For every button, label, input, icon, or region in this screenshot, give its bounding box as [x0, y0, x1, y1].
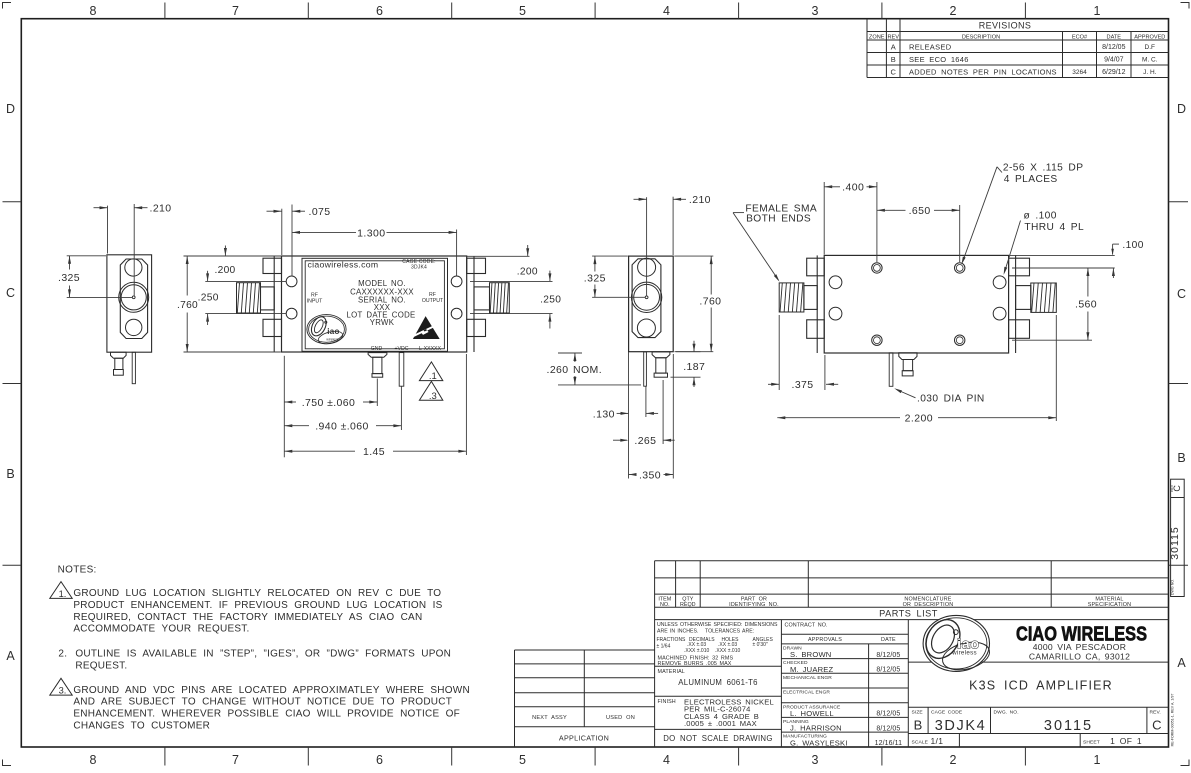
svg-text:GND: GND	[371, 346, 383, 352]
svg-text:INPUT: INPUT	[307, 299, 323, 305]
svg-text:B: B	[914, 718, 923, 733]
dimension .940 +-.060 top view	[284, 387, 401, 433]
dimension .187 right end view	[671, 341, 706, 387]
svg-text:.210: .210	[689, 194, 711, 206]
svg-text:B: B	[891, 55, 896, 64]
svg-text:S. BROWN: S. BROWN	[790, 650, 832, 659]
svg-text:C: C	[6, 286, 15, 300]
zone ticks bottom edge	[165, 747, 1026, 766]
svg-text:OUTLINE IS AVAILABLE IN ”STEP”: OUTLINE IS AVAILABLE IN ”STEP”, ”IGES”, …	[75, 649, 451, 660]
svg-text:NO.: NO.	[660, 602, 670, 608]
svg-text:1.45: 1.45	[363, 446, 385, 458]
dimension .075 top view	[267, 205, 331, 277]
dimension .210 left end view	[94, 203, 172, 296]
svg-text:1.: 1.	[59, 589, 67, 599]
svg-text:.650: .650	[909, 205, 931, 217]
parts list headers	[658, 596, 1131, 608]
dimension .100 bottom view	[1010, 240, 1144, 278]
svg-text:1 OF 1: 1 OF 1	[1110, 736, 1142, 746]
right end view SMA bore	[631, 282, 661, 312]
svg-text:M. JUAREZ: M. JUAREZ	[790, 665, 834, 674]
dimension 2.200 bottom view	[777, 315, 1056, 425]
bottom view left SMA connector body	[804, 286, 817, 310]
svg-text:wireless: wireless	[326, 338, 339, 342]
svg-text:GROUND LUG LOCATION SLIGHTLY R: GROUND LUG LOCATION SLIGHTLY RELOCATED O…	[73, 588, 441, 599]
svg-text:THRU 4 PL: THRU 4 PL	[1024, 222, 1084, 233]
svg-text:.075: .075	[309, 206, 331, 218]
top view right SMA thread	[490, 283, 510, 313]
svg-text:ENHANCEMENT. WHEREVER POSSIBLE: ENHANCEMENT. WHEREVER POSSIBLE CIAO WILL…	[73, 709, 460, 720]
svg-text:APPROVALS: APPROVALS	[808, 637, 842, 643]
svg-text:A: A	[1177, 656, 1186, 670]
dimension .325 right end view	[584, 256, 645, 297]
dimension .200 right of top view	[467, 245, 553, 281]
top view body outline	[282, 256, 467, 352]
svg-text:6: 6	[376, 4, 383, 18]
bottom view left SMA thread	[779, 283, 804, 312]
svg-text:DWG. NO.: DWG. NO.	[994, 710, 1019, 716]
svg-text:8/12/05: 8/12/05	[876, 725, 900, 732]
svg-text:.200: .200	[517, 267, 538, 278]
svg-text:CONTRACT NO.: CONTRACT NO.	[785, 623, 828, 629]
svg-text:IDENTIFYING NO.: IDENTIFYING NO.	[729, 602, 779, 608]
svg-text:REV: REV	[887, 34, 899, 40]
svg-text:5: 5	[519, 753, 526, 767]
svg-text:1.300: 1.300	[357, 227, 385, 239]
svg-text:30115: 30115	[1169, 526, 1181, 559]
revisions table grid	[867, 19, 1169, 78]
svg-text:1/1: 1/1	[931, 736, 944, 746]
svg-text:SPECIFICATION: SPECIFICATION	[1088, 602, 1132, 608]
svg-text:CHANGES TO CUSTOMER: CHANGES TO CUSTOMER	[73, 720, 210, 731]
callout 2-56 X .115 DP 4 PLACES	[962, 163, 1084, 265]
ESD warning triangle (label)	[413, 316, 440, 339]
svg-text:1: 1	[1094, 4, 1101, 18]
svg-text:A: A	[6, 649, 15, 663]
zone numbers top	[90, 4, 1101, 18]
size cage dwg rev labels	[912, 710, 1161, 716]
svg-text:ALUMINUM 6061-T6: ALUMINUM 6061-T6	[678, 678, 758, 687]
svg-text:3DJK4: 3DJK4	[411, 265, 427, 271]
zone letters left	[6, 102, 15, 663]
svg-text:.325: .325	[584, 273, 606, 285]
svg-text:FRACTIONS: FRACTIONS	[657, 637, 687, 643]
svg-text:ARE IN INCHES. TOLERANCES AR: ARE IN INCHES. TOLERANCES ARE:	[657, 628, 754, 634]
callout dia .100 THRU 4 PL	[1004, 211, 1084, 275]
dimension 1.300 top view	[292, 227, 457, 275]
svg-text:ACCOMMODATE YOUR REQUEST.: ACCOMMODATE YOUR REQUEST.	[73, 624, 249, 635]
svg-text:RE-FORM-00051-1, REV A, 1/97: RE-FORM-00051-1, REV A, 1/97	[1171, 694, 1175, 747]
svg-text:.940 ±.060: .940 ±.060	[315, 421, 369, 433]
left end view body	[107, 255, 152, 352]
top view right end-cap plate	[473, 256, 475, 352]
dimension .350 right end view	[629, 354, 674, 481]
svg-text:.0005 ± .0001 MAX: .0005 ± .0001 MAX	[684, 719, 757, 728]
svg-text:± 0'30": ± 0'30"	[753, 642, 768, 648]
application table labels	[532, 715, 635, 743]
svg-text:SIZE: SIZE	[912, 710, 924, 716]
svg-text:L. HOWELL: L. HOWELL	[790, 709, 834, 718]
svg-text:RELEASED: RELEASED	[909, 43, 952, 52]
svg-text:ADDED NOTES PER PIN LOCATIONS: ADDED NOTES PER PIN LOCATIONS	[909, 68, 1057, 77]
svg-text:.260: .260	[547, 364, 569, 376]
dimension .130 right end view	[593, 352, 658, 479]
note 2 text	[58, 649, 451, 672]
svg-text:REVISIONS: REVISIONS	[979, 21, 1032, 31]
right end view mounting hole bottom	[637, 319, 655, 337]
bottom view left mounting tabs	[807, 258, 825, 276]
svg-text:4 PLACES: 4 PLACES	[1004, 174, 1058, 185]
right end view center pin dot	[645, 296, 648, 299]
dimension .760 left of top view	[177, 256, 281, 352]
svg-text:SCALE: SCALE	[912, 740, 929, 746]
svg-text:2.: 2.	[58, 649, 67, 660]
svg-text:.750 ±.060: .750 ±.060	[302, 397, 356, 409]
svg-text:NEXT ASSY: NEXT ASSY	[532, 715, 567, 721]
left end view center pin dot	[132, 296, 135, 299]
svg-text:J. HARRISON: J. HARRISON	[790, 724, 842, 733]
ciao logo small (label)	[307, 314, 346, 346]
svg-text:DESCRIPTION: DESCRIPTION	[962, 34, 1000, 40]
svg-text:REMOVE BURRS .005 MAX: REMOVE BURRS .005 MAX	[658, 661, 732, 667]
approvals rows	[783, 646, 900, 660]
svg-text:2: 2	[950, 753, 957, 767]
dimension .260 NOM right end view	[547, 353, 642, 385]
zone ticks right edge	[1169, 202, 1189, 566]
zone ticks top edge	[165, 3, 1026, 19]
flag note 1 triangle	[50, 582, 72, 599]
svg-text:iao: iao	[327, 327, 339, 336]
dimension .200 left of top view	[205, 246, 286, 282]
left end view ground lug	[111, 352, 127, 375]
svg-text:SHEET: SHEET	[1083, 740, 1100, 746]
note 1 text	[73, 588, 442, 635]
svg-text:.265: .265	[634, 435, 656, 447]
svg-text:8/12/05: 8/12/05	[876, 667, 900, 674]
svg-text:M. C.: M. C.	[1142, 57, 1158, 64]
svg-text:.XXX ±.010: .XXX ±.010	[715, 648, 740, 654]
svg-text:DWG NO.: DWG NO.	[1170, 579, 1174, 595]
dimension .210 right end view	[634, 194, 711, 296]
svg-text:CAMARILLO CA, 93012: CAMARILLO CA, 93012	[1029, 651, 1130, 661]
svg-text:USED ON: USED ON	[606, 715, 635, 721]
svg-text:BOTH ENDS: BOTH ENDS	[746, 213, 811, 224]
svg-text:2.200: 2.200	[905, 413, 933, 425]
bottom view tapped holes 2-56	[872, 263, 882, 273]
application table grid	[515, 650, 655, 747]
svg-text:7: 7	[232, 753, 239, 767]
dimension .325 left end view	[58, 256, 133, 298]
svg-text:DO NOT SCALE DRAWING: DO NOT SCALE DRAWING	[663, 734, 772, 743]
svg-text:OR DESCRIPTION: OR DESCRIPTION	[903, 602, 954, 608]
svg-text:REQD: REQD	[680, 602, 696, 608]
svg-text:.1: .1	[429, 371, 437, 382]
dimension .250 right of top view	[470, 271, 561, 329]
svg-text:2: 2	[950, 4, 957, 18]
svg-text:FINISH: FINISH	[658, 699, 676, 705]
svg-text:A: A	[891, 43, 896, 52]
svg-text:8: 8	[90, 4, 97, 18]
svg-text:.325: .325	[58, 272, 80, 284]
svg-text:6/29/12: 6/29/12	[1102, 69, 1125, 76]
svg-text:B: B	[1177, 451, 1185, 465]
dimension .265 right end view	[613, 380, 675, 447]
svg-text:.100: .100	[1122, 240, 1143, 251]
svg-text:C: C	[890, 68, 896, 77]
svg-text:8: 8	[90, 753, 97, 767]
svg-text:.760: .760	[177, 300, 198, 311]
svg-text:AND ARE SUBJECT TO CHANGE WITH: AND ARE SUBJECT TO CHANGE WITHOUT NOTICE…	[73, 697, 452, 708]
top view screw holes	[286, 276, 297, 287]
bottom view right end-cap plate	[1015, 255, 1017, 353]
svg-text:.250: .250	[540, 294, 561, 305]
svg-text:REV: REV	[1170, 484, 1174, 492]
svg-text:ELECTRICAL ENGR: ELECTRICAL ENGR	[783, 690, 830, 696]
note 3 text	[73, 685, 470, 732]
right end view connector plate octagon	[632, 259, 661, 338]
svg-text:3264: 3264	[1072, 69, 1087, 76]
right end view body	[629, 256, 674, 352]
svg-text:.375: .375	[792, 379, 814, 391]
svg-text:ø .100: ø .100	[1024, 211, 1057, 222]
svg-text:K3S ICD AMPLIFIER: K3S ICD AMPLIFIER	[969, 679, 1113, 693]
svg-text:D: D	[6, 102, 15, 116]
svg-text:C: C	[1177, 287, 1186, 301]
svg-text:ECO#: ECO#	[1072, 34, 1088, 40]
flag note triangle 3	[419, 381, 442, 400]
zone letters right	[1177, 102, 1186, 670]
svg-text:CAGE CODE: CAGE CODE	[931, 710, 963, 716]
material box text	[658, 669, 758, 687]
left end view SMA bore	[119, 282, 149, 312]
svg-text:.030 DIA PIN: .030 DIA PIN	[917, 394, 985, 405]
svg-text:.3: .3	[429, 391, 437, 402]
svg-text:3.: 3.	[59, 686, 67, 696]
svg-text:APPLICATION: APPLICATION	[559, 733, 609, 742]
svg-text:4: 4	[663, 4, 670, 18]
svg-text:+VDC: +VDC	[395, 346, 409, 352]
top view left SMA thread	[237, 283, 261, 313]
contract / approvals grid	[781, 620, 908, 747]
svg-text:DATE: DATE	[1107, 34, 1122, 40]
svg-text:3: 3	[812, 4, 819, 18]
svg-text:REV.: REV.	[1150, 710, 1161, 716]
title block company area grid	[908, 662, 1168, 747]
svg-text:C: C	[1152, 718, 1161, 733]
svg-text:1: 1	[1094, 753, 1101, 767]
dimension 1.45 top view	[284, 354, 466, 458]
svg-text:8/12/05: 8/12/05	[876, 652, 900, 659]
svg-text:± 1/64: ± 1/64	[657, 643, 671, 649]
ciao wireless logo (title block)	[919, 613, 992, 674]
tolerance block box	[655, 620, 782, 747]
top view label plate	[302, 258, 448, 351]
zone numbers bottom	[90, 753, 1101, 767]
svg-text:12/16/11: 12/16/11	[875, 740, 903, 747]
svg-text:ZONE: ZONE	[869, 34, 885, 40]
svg-text:OUTPUT: OUTPUT	[422, 298, 444, 304]
svg-text:9/4/07: 9/4/07	[1104, 57, 1124, 64]
dimension .375 bottom view	[768, 315, 838, 391]
dimension .650 bottom view	[877, 205, 960, 262]
svg-text:wireless: wireless	[951, 650, 977, 657]
svg-text:ciaowireless.com: ciaowireless.com	[308, 259, 379, 269]
svg-text:.760: .760	[699, 295, 721, 307]
dimension .400 bottom view	[824, 182, 877, 262]
finish box text	[658, 697, 774, 728]
svg-text:D: D	[1177, 102, 1186, 116]
svg-text:.350: .350	[639, 469, 661, 481]
svg-text:B: B	[6, 467, 14, 481]
right end view ground lug	[652, 352, 670, 377]
revision row B	[891, 55, 1158, 64]
svg-text:L-XXXXX: L-XXXXX	[419, 346, 441, 352]
svg-text:D.F: D.F	[1145, 44, 1156, 51]
svg-text:8/12/05: 8/12/05	[1102, 44, 1125, 51]
left end view connector plate octagon	[120, 259, 147, 339]
svg-text:NOTES:: NOTES:	[58, 565, 97, 576]
top view +VDC pin	[399, 353, 404, 387]
flag note 3 triangle	[50, 678, 72, 695]
svg-text:.560: .560	[1075, 299, 1097, 311]
right end view mounting hole top	[638, 258, 656, 276]
svg-text:3DJK4: 3DJK4	[935, 718, 987, 734]
dimension .750 +-.060 top view	[284, 356, 377, 458]
svg-text:.130: .130	[593, 408, 615, 420]
bottom view right mounting tabs	[1009, 258, 1030, 276]
svg-text:MECHANICAL ENGR: MECHANICAL ENGR	[783, 675, 832, 681]
dimension .560 bottom view	[1012, 268, 1097, 340]
dimension .250 left of top view	[198, 271, 287, 325]
svg-text:30115: 30115	[1044, 718, 1093, 734]
top view ground lug	[368, 353, 387, 378]
tolerance block text	[657, 622, 779, 667]
flag note triangle 1	[419, 362, 442, 381]
svg-text:NOM.: NOM.	[573, 364, 602, 376]
svg-text:7: 7	[232, 4, 239, 18]
svg-text:J. H.: J. H.	[1143, 69, 1157, 76]
zone ticks left edge	[3, 202, 22, 566]
callout .030 DIA PIN	[894, 388, 985, 404]
scale sheet row	[912, 736, 1142, 746]
label text model/serial block	[347, 279, 416, 327]
svg-text:2-56 X .115 DP: 2-56 X .115 DP	[1003, 163, 1084, 174]
ciao logo text	[951, 636, 980, 657]
left end view mounting hole top	[125, 259, 142, 276]
svg-text:G. WASYLESKI: G. WASYLESKI	[790, 738, 848, 747]
svg-text:.200: .200	[214, 265, 235, 276]
dimension .760 right end view	[674, 256, 721, 352]
bottom view right SMA connector body	[1016, 286, 1031, 310]
svg-text:YRWK: YRWK	[370, 318, 395, 327]
svg-text:REQUEST.: REQUEST.	[75, 660, 127, 671]
svg-text:APPROVED: APPROVED	[1134, 34, 1165, 40]
top view left end-cap plate	[273, 256, 275, 352]
bottom view left end-cap plate	[816, 255, 818, 353]
parts list grid	[655, 561, 1169, 747]
svg-text:MATERIAL: MATERIAL	[658, 669, 685, 675]
top view left SMA connector body	[261, 287, 275, 310]
svg-text:SEE ECO 1646: SEE ECO 1646	[909, 55, 969, 64]
svg-text:.250: .250	[198, 293, 219, 304]
svg-text:.187: .187	[683, 361, 705, 373]
bottom view .030 dia pin	[889, 353, 893, 387]
revisions table header text	[869, 21, 1165, 41]
top view right SMA connector body	[474, 287, 490, 310]
callout FEMALE SMA BOTH ENDS	[733, 204, 817, 282]
svg-text:PARTS LIST: PARTS LIST	[879, 609, 938, 619]
bottom view body outline	[824, 255, 1008, 353]
svg-text:5: 5	[519, 4, 526, 18]
top view left mounting tabs	[263, 258, 282, 273]
svg-text:.400: .400	[842, 182, 864, 194]
bottom view thru holes .100	[829, 276, 842, 289]
revision row A	[891, 43, 1155, 52]
company name and address	[1016, 623, 1147, 661]
svg-text:UNLESS OTHERWISE SPECIFIED: DI: UNLESS OTHERWISE SPECIFIED: DIMENSIONS	[657, 622, 778, 628]
right end view VDC pin wire	[644, 352, 647, 386]
svg-text:4: 4	[663, 753, 670, 767]
left end view mounting hole bottom	[126, 319, 142, 335]
bottom view ground lug	[899, 353, 917, 376]
dwg no tab (right margin)	[1169, 479, 1184, 596]
size cage dwg rev values	[914, 718, 1162, 735]
svg-text:3: 3	[812, 753, 819, 767]
svg-text:.XXX ±.010: .XXX ±.010	[684, 648, 709, 654]
revision row C	[890, 68, 1156, 77]
svg-text:6: 6	[376, 753, 383, 767]
bottom view right SMA thread	[1031, 283, 1057, 312]
svg-text:DATE: DATE	[881, 637, 896, 643]
left end view VDC pin wire	[132, 352, 135, 383]
svg-text:GROUND AND VDC PINS ARE LOCATE: GROUND AND VDC PINS ARE LOCATED APPROXIM…	[73, 685, 470, 696]
top view right mounting tabs	[467, 258, 486, 273]
svg-text:PRODUCT ENHANCEMENT. IF PREVIO: PRODUCT ENHANCEMENT. IF PREVIOUS GROUND …	[73, 600, 442, 611]
svg-text:8/12/05: 8/12/05	[876, 711, 900, 718]
svg-text:.210: .210	[150, 203, 172, 215]
label text GND +VDC L-XXXXX	[371, 346, 442, 352]
svg-text:REQUIRED, CONTACT THE FACTORY: REQUIRED, CONTACT THE FACTORY IMMEDIATEL…	[73, 612, 422, 623]
